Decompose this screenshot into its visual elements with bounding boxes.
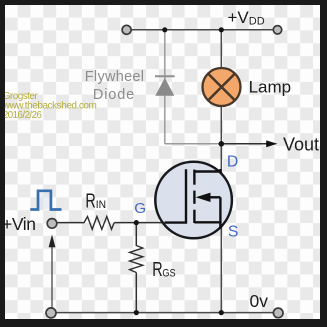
svg-text:IN: IN [96, 199, 106, 211]
svg-text:+Vin: +Vin [2, 214, 36, 234]
wire gate from RIN to MOSFET [114, 222, 168, 224]
MOSFET body arrowhead [196, 193, 211, 202]
input voltage arrow line [51, 246, 53, 312]
resistor RGS zigzag [130, 246, 143, 273]
wire drain vertical [220, 144, 222, 173]
MOSFET drain lead [194, 169, 220, 172]
svg-text:Vout: Vout [283, 134, 319, 154]
Vout arrowhead [266, 140, 277, 147]
input voltage arrowhead [49, 235, 56, 248]
MOSFET channel dash top [193, 170, 195, 185]
junction dot bottom RGS [134, 310, 139, 315]
MOSFET gate bar and foot [165, 169, 187, 222]
wire from +Vin terminal to RIN [58, 222, 85, 224]
svg-text:Flywheel: Flywheel [85, 69, 144, 85]
svg-text:R: R [152, 259, 162, 281]
svg-text:S: S [228, 224, 239, 241]
MOSFET Q1 body circle [155, 162, 232, 239]
svg-text:R: R [85, 191, 95, 213]
wire bottom rail 0v [51, 312, 278, 314]
wire diode branch horizontal to drain node [165, 143, 222, 145]
junction dot drain node [219, 141, 225, 147]
wire RGS top lead [135, 223, 137, 246]
svg-text:GS: GS [162, 268, 176, 280]
wire diode branch vertical [164, 30, 166, 144]
diode cathode bar [155, 75, 175, 77]
wire RGS bottom lead [135, 273, 137, 313]
junction dot bottom source [219, 310, 224, 315]
svg-text:D: D [227, 153, 238, 170]
lamp cross line 1 [208, 74, 235, 101]
frame top [0, 0, 327, 5]
terminal +VDD left [122, 25, 131, 34]
junction dot top diode [162, 27, 167, 32]
pulse waveform symbol [30, 191, 61, 210]
svg-text:Lamp: Lamp [249, 77, 292, 96]
svg-text:0v: 0v [250, 291, 269, 311]
lamp cross line 2 [208, 74, 235, 101]
junction dot gate node [134, 220, 139, 225]
frame bottom [0, 319, 327, 327]
pulse waveform symbol fill [38, 191, 51, 210]
svg-text:G: G [134, 200, 146, 217]
resistor RIN zigzag [84, 217, 114, 230]
Vout line [221, 143, 267, 145]
terminal +VDD right [273, 26, 281, 34]
svg-text:+VDD: +VDD [228, 8, 265, 28]
lamp L1 circle [203, 68, 241, 106]
wire top rail VDD [127, 29, 278, 31]
MOSFET source lead [194, 222, 220, 228]
terminal 0v left [46, 308, 56, 318]
MOSFET body arrow line [219, 197, 221, 222]
terminal +Vin [47, 219, 57, 229]
wire source vertical [220, 227, 222, 313]
MOSFET channel dash bottom [193, 210, 195, 223]
wire lamp branch vertical [220, 30, 222, 144]
frame left [0, 0, 5, 327]
flywheel diode D1 triangle [155, 78, 174, 96]
MOSFET channel dash middle [193, 191, 195, 204]
junction dot top lamp [219, 27, 224, 32]
terminal 0v right [273, 308, 283, 318]
svg-text:2016/2/26: 2016/2/26 [3, 110, 43, 121]
frame right [320, 0, 327, 327]
svg-text:Diode: Diode [93, 87, 134, 103]
